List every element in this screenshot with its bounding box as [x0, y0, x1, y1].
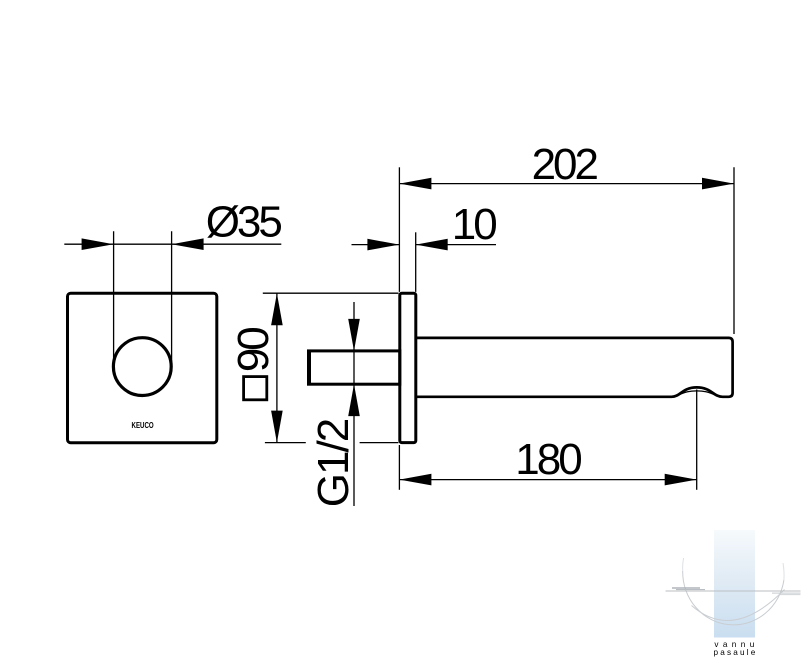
dimension 202: extension line right: [733, 167, 735, 334]
dimension D35: extension line left: [113, 231, 115, 366]
watermark: right light dashes: [772, 593, 801, 594]
dimension G1/2: dimension line: [353, 302, 355, 506]
dimension 202: arrow right: [702, 178, 734, 190]
dimension D35: arrow right: [172, 238, 204, 250]
dimension 10: arrow right: [416, 239, 448, 251]
dimension 90: arrow up: [271, 293, 283, 325]
dimension 202: extension line left: [398, 167, 400, 292]
dimension 10: extension line right: [415, 232, 417, 292]
dimension 180: arrow right: [665, 474, 697, 486]
watermark: blue gradient bar: [714, 530, 755, 638]
dimension G1/2: arrow down (above pipe): [348, 319, 360, 351]
dimension 202: arrow left: [399, 178, 431, 190]
dimension 90: extension line top: [263, 292, 399, 294]
dimension 90: dimension line: [276, 293, 278, 442]
spout tube front view (circle): [113, 338, 171, 396]
svg-text:Ø35: Ø35: [206, 198, 282, 247]
dimension 10: dimension line right part: [416, 244, 496, 246]
dimension 90: extension line bottom (broken by G1/2 text): [265, 442, 306, 444]
svg-text:180: 180: [515, 435, 581, 484]
dimension D35: extension line right: [171, 231, 173, 366]
svg-text:90: 90: [229, 328, 278, 372]
watermark: bowl main arc: [683, 571, 784, 625]
dimension 10: dimension line left part: [352, 244, 400, 246]
svg-text:202: 202: [532, 140, 598, 189]
KEUCO logo text: [131, 421, 154, 430]
watermark: outer smile arc: [692, 590, 785, 621]
G1/2 threaded connector: [309, 351, 400, 384]
dimension 180: extension line left: [398, 445, 400, 490]
svg-text:10: 10: [452, 200, 496, 249]
dimension G1/2: label (rotated): [309, 419, 358, 507]
dimension 90: arrow down: [271, 411, 283, 443]
dimension 180: arrow left: [399, 474, 431, 486]
wall plate side view: [400, 293, 416, 442]
svg-text:pasaule: pasaule: [713, 648, 757, 657]
aerator inner arc: [678, 391, 717, 396]
spout tube side view with aerator recess: [416, 338, 733, 397]
svg-text:G1/2: G1/2: [309, 419, 358, 507]
dimension D35: dimension line: [64, 243, 281, 245]
dimension 180: extension line right (from aerator): [696, 390, 698, 490]
wall plate front view (square escutcheon): [68, 293, 217, 443]
dimension 10: arrow left: [367, 239, 399, 251]
watermark: left dark dashes: [672, 587, 700, 588]
svg-text:KEUCO: KEUCO: [131, 421, 154, 430]
dimension D35: arrow left: [82, 238, 114, 250]
dimension 90: label (rotated): [229, 328, 278, 372]
dimension 202: dimension line: [399, 183, 734, 185]
watermark: horizontal line: [666, 590, 801, 592]
watermark: bowl arc faint tail left: [682, 558, 685, 571]
dimension G1/2: arrow up (below pipe): [348, 384, 360, 416]
dimension 180: dimension line: [399, 479, 696, 481]
square symbol: [244, 377, 267, 400]
watermark: bowl arc faint tail right: [783, 563, 784, 580]
